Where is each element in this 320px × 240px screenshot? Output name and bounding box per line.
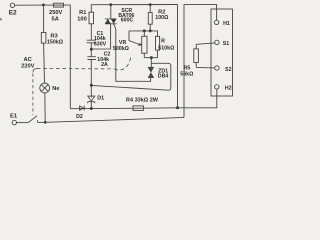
scan speck xyxy=(0,18,2,20)
resistor R4 xyxy=(133,106,143,111)
wire VR-R bottom xyxy=(144,57,157,59)
svg-text:E1: E1 xyxy=(10,113,18,119)
wire fuse to left rail corner xyxy=(64,5,71,109)
svg-text:100Ω: 100Ω xyxy=(155,15,169,21)
svg-text:510kΩ: 510kΩ xyxy=(158,46,175,52)
diode D1 xyxy=(88,96,95,101)
terminal H2 xyxy=(215,85,219,89)
fuse 250V 5A xyxy=(54,3,64,7)
svg-text:56kΩ: 56kΩ xyxy=(180,71,194,77)
diac ZD1 xyxy=(148,67,153,77)
wire S2 line xyxy=(196,66,215,69)
svg-text:S1: S1 xyxy=(223,41,230,47)
wire detour around ZD1 xyxy=(91,63,171,90)
node C2 bottom xyxy=(90,84,93,87)
wire R4 row xyxy=(133,89,217,108)
node diac top xyxy=(150,56,153,59)
svg-text:630V: 630V xyxy=(94,42,107,48)
svg-text:DB4: DB4 xyxy=(158,73,169,79)
svg-text:Ne: Ne xyxy=(52,86,59,92)
wire triac MT1 to node xyxy=(91,24,110,49)
wire VR-R top xyxy=(129,31,158,37)
terminal S2 xyxy=(215,66,219,70)
svg-text:E2: E2 xyxy=(9,9,17,16)
node triac top xyxy=(109,3,112,6)
wire v2 upper segment xyxy=(183,4,185,43)
terminal E2 xyxy=(10,3,14,7)
wire lamp to bottom rail xyxy=(44,93,46,122)
svg-text:220V: 220V xyxy=(21,63,34,69)
svg-text:D2: D2 xyxy=(76,114,83,120)
wire E1 to switch xyxy=(16,122,28,124)
svg-text:R: R xyxy=(161,39,165,45)
svg-text:150kΩ: 150kΩ xyxy=(47,40,64,46)
svg-text:R5: R5 xyxy=(184,65,191,71)
switch SA blade xyxy=(28,116,37,123)
wire xyxy=(15,4,54,6)
svg-text:R3: R3 xyxy=(50,34,57,40)
capacitor C1 xyxy=(87,40,96,43)
node R2 bottom xyxy=(149,29,152,32)
diode D2 xyxy=(80,106,84,110)
wire v2 lower segment xyxy=(183,43,185,117)
resistor R1 xyxy=(90,5,92,13)
svg-text:S2: S2 xyxy=(225,67,232,73)
VR wiper xyxy=(129,31,140,45)
resistor R2 xyxy=(149,5,151,13)
resistor R 510k xyxy=(156,36,160,50)
mechanical link dashed xyxy=(33,57,131,115)
svg-text:R1: R1 xyxy=(79,10,86,16)
terminal H1 xyxy=(214,20,218,24)
wire bottom D2 row xyxy=(70,107,133,109)
wire H1 rail xyxy=(184,4,217,20)
svg-text:5A: 5A xyxy=(52,16,59,22)
connector box xyxy=(211,9,233,96)
node R2 top xyxy=(149,3,152,6)
node R3 top xyxy=(42,4,45,7)
triac SCR xyxy=(110,5,112,19)
svg-text:2A: 2A xyxy=(101,62,108,68)
svg-text:D1: D1 xyxy=(97,95,104,101)
svg-text:600C: 600C xyxy=(121,18,134,24)
gate wire xyxy=(114,24,151,82)
top rail B xyxy=(91,4,177,6)
svg-text:500kΩ: 500kΩ xyxy=(113,46,130,52)
terminal S1 xyxy=(215,40,219,44)
node lamp bottom xyxy=(44,121,47,124)
node R4 right xyxy=(176,106,179,109)
node VR top xyxy=(143,29,146,32)
svg-text:250V: 250V xyxy=(49,10,62,16)
node C1-C2 xyxy=(90,48,93,51)
svg-text:100: 100 xyxy=(77,16,87,22)
svg-text:R4 33kΩ 2W: R4 33kΩ 2W xyxy=(126,97,159,103)
svg-text:AC: AC xyxy=(23,57,31,63)
wire v1 xyxy=(177,5,179,108)
bottom rail xyxy=(38,117,184,122)
svg-text:H1: H1 xyxy=(223,21,230,27)
svg-text:H2: H2 xyxy=(225,86,232,92)
resistor R5 xyxy=(194,49,199,63)
potentiometer VR xyxy=(143,31,145,36)
node D1 bottom xyxy=(90,107,93,110)
capacitor C2 xyxy=(87,57,96,60)
wire S1 line xyxy=(196,43,215,49)
terminal E1 xyxy=(12,120,16,124)
resistor R3 xyxy=(43,5,45,33)
lamp Ne xyxy=(40,83,50,93)
